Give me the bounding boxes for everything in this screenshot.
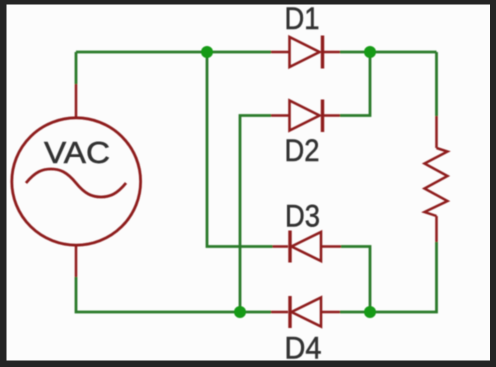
svg-text:D1: D1 <box>285 0 320 36</box>
wire: vertical from node A down to D3 row <box>207 52 273 247</box>
resistor R1 zigzag <box>425 148 448 216</box>
node A junction dot <box>201 46 213 58</box>
diode D1 <box>271 36 340 69</box>
wire top: VAC top to D1 anode <box>76 51 271 54</box>
diode D3 <box>273 231 342 263</box>
svg-text:D2: D2 <box>285 132 320 168</box>
node D junction dot <box>364 306 376 318</box>
VAC sine wave <box>26 169 126 197</box>
wire: VAC top lead green segment <box>75 52 78 84</box>
wire: D3 anode right to vertical down to node D <box>341 247 370 313</box>
node C junction dot <box>234 306 246 318</box>
VAC bottom lead (red) <box>75 246 78 277</box>
VAC top lead (red) <box>75 84 78 117</box>
wire top: D1 cathode to top-right corner <box>340 51 437 54</box>
node B junction dot <box>364 46 376 58</box>
diode D4 <box>271 296 340 328</box>
diode D2 <box>271 100 340 133</box>
resistor R1 top lead <box>435 116 438 148</box>
svg-text:VAC: VAC <box>44 135 110 170</box>
VAC source circle <box>12 118 141 245</box>
resistor R1 bottom lead <box>435 216 438 242</box>
svg-text:D4: D4 <box>285 330 322 366</box>
wire: right side bottom vertical (resistor to bottom wire) <box>340 242 437 312</box>
svg-text:D3: D3 <box>285 198 320 234</box>
wire: D2 anode left to vertical x=240.5 down to bottom wire <box>240 116 271 313</box>
wire: right side top vertical (node B corner to resistor) <box>435 52 438 116</box>
wire bottom: VAC bottom to D4 cathode <box>76 277 271 312</box>
wire: vertical from node B down to D2 row <box>340 52 370 116</box>
